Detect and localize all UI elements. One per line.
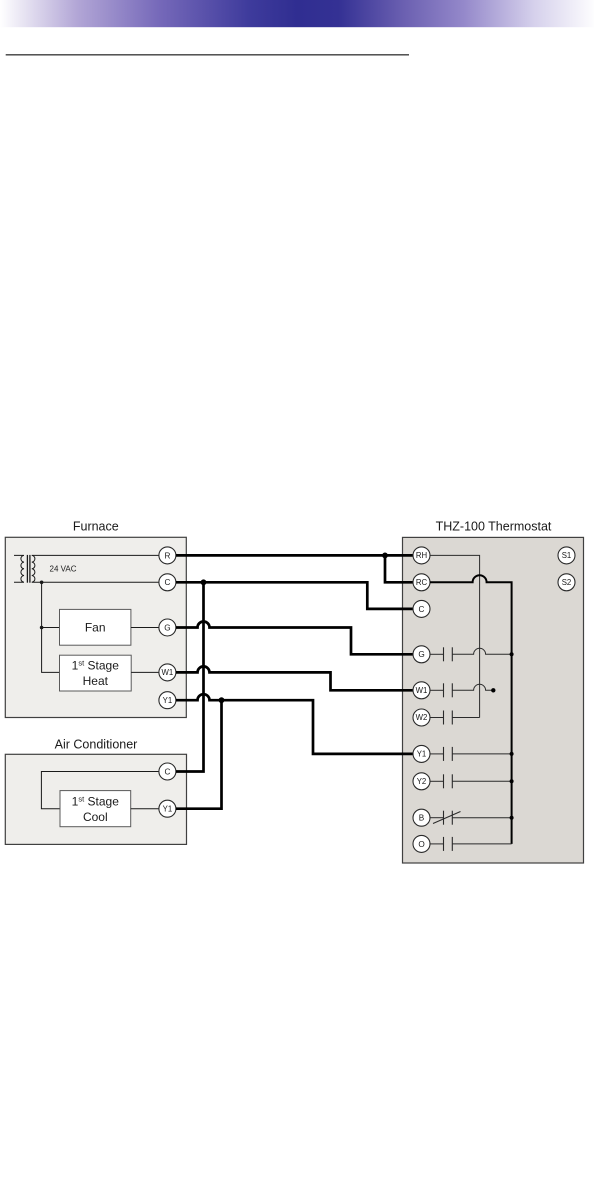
terminal Y1 (furnace) bbox=[159, 692, 176, 709]
terminal B bbox=[413, 809, 430, 826]
terminal C (furnace) bbox=[159, 574, 176, 591]
svg-text:S2: S2 bbox=[562, 578, 572, 587]
svg-text:G: G bbox=[164, 623, 170, 632]
THZ-100 Thermostat title bbox=[436, 520, 552, 534]
wire RH vertical to W2 row bbox=[430, 555, 480, 717]
contact W1 bbox=[430, 683, 493, 697]
terminal Y1 (thermostat) bbox=[413, 745, 430, 762]
junction dot B on bus bbox=[510, 816, 514, 820]
contact Y2 bbox=[430, 774, 512, 788]
svg-text:Y1: Y1 bbox=[417, 750, 427, 759]
svg-text:R: R bbox=[164, 551, 170, 560]
terminal G (thermostat) bbox=[413, 646, 430, 663]
svg-text:G: G bbox=[418, 650, 424, 659]
field wire W1 to thermostat W1 bbox=[176, 666, 413, 690]
contact B (normally closed) bbox=[430, 811, 512, 825]
svg-text:C: C bbox=[164, 767, 170, 776]
terminal O bbox=[413, 835, 430, 852]
svg-text:C: C bbox=[419, 605, 425, 614]
Fan box bbox=[60, 609, 131, 645]
field wire branch to RC bbox=[385, 555, 413, 582]
field wire Y1 to thermostat Y1 bbox=[176, 694, 413, 754]
svg-text:Heat: Heat bbox=[83, 674, 109, 688]
transformer T1 primary winding bbox=[14, 555, 24, 582]
field wire C down to AC bbox=[176, 582, 204, 771]
wire transformer secondary bottom to C bbox=[32, 581, 159, 583]
junction dot C branch bbox=[201, 579, 207, 585]
horizontal rule bbox=[6, 54, 409, 56]
Air Conditioner title bbox=[55, 738, 138, 752]
svg-text:Y1: Y1 bbox=[163, 804, 173, 813]
field wire R to RH bbox=[176, 554, 413, 557]
svg-text:24 VAC: 24 VAC bbox=[50, 564, 77, 573]
terminal W1 (furnace) bbox=[159, 664, 176, 681]
terminal G (furnace) bbox=[159, 619, 176, 636]
label 24 VAC bbox=[50, 564, 77, 573]
svg-text:Y2: Y2 bbox=[417, 777, 427, 786]
svg-text:THZ-100 Thermostat: THZ-100 Thermostat bbox=[436, 520, 552, 534]
THZ-100 Thermostat box bbox=[403, 537, 584, 863]
transformer T1 secondary winding bbox=[32, 555, 35, 582]
svg-text:O: O bbox=[418, 840, 424, 849]
wire Cool to Y1 (AC) bbox=[131, 808, 159, 810]
svg-text:W1: W1 bbox=[162, 668, 174, 677]
wire transformer secondary top to R bbox=[32, 554, 159, 556]
transformer T1 core bbox=[27, 555, 30, 583]
svg-text:W2: W2 bbox=[416, 713, 428, 722]
Air Conditioner box bbox=[5, 754, 186, 844]
terminal C (AC) bbox=[159, 763, 176, 780]
svg-text:RH: RH bbox=[416, 551, 427, 560]
svg-text:Fan: Fan bbox=[85, 621, 106, 635]
junction dot W1 stub bbox=[491, 688, 495, 692]
terminal S1 bbox=[558, 547, 575, 564]
junction dot R/RC branch bbox=[382, 553, 388, 559]
contact O bbox=[430, 837, 512, 851]
junction dot on secondary bottom bbox=[40, 581, 44, 585]
svg-text:W1: W1 bbox=[416, 686, 428, 695]
junction dot G on bus bbox=[510, 652, 514, 656]
field wire G to thermostat G bbox=[176, 622, 413, 655]
svg-text:RC: RC bbox=[416, 578, 428, 587]
terminal W2 bbox=[413, 709, 430, 726]
contact Y1 bbox=[430, 747, 512, 761]
wire common vertical inside furnace bbox=[42, 582, 60, 672]
wire RC thick with hop and vertical bus bbox=[430, 575, 512, 844]
field wire C to thermostat C bbox=[176, 582, 413, 609]
junction dot Y2 on bus bbox=[510, 779, 514, 783]
terminal R (furnace) bbox=[159, 547, 176, 564]
terminal RH bbox=[413, 547, 430, 564]
terminal RC bbox=[413, 574, 430, 591]
svg-text:B: B bbox=[419, 814, 425, 823]
contact W2 bbox=[430, 711, 480, 725]
wire Heat to W1 bbox=[131, 671, 159, 673]
banner gradient bar bbox=[0, 0, 594, 27]
Furnace box bbox=[5, 537, 186, 717]
terminal Y2 bbox=[413, 773, 430, 790]
terminal W1 (thermostat) bbox=[413, 682, 430, 699]
svg-text:Cool: Cool bbox=[83, 810, 108, 824]
terminal C (thermostat) bbox=[413, 600, 430, 617]
1st Stage Heat box bbox=[60, 655, 132, 691]
wire Fan to G bbox=[131, 627, 159, 629]
field wire AC Y1 up to Y1 line bbox=[176, 700, 222, 809]
terminal Y1 (AC) bbox=[159, 800, 176, 817]
1st Stage Cool box bbox=[60, 791, 131, 827]
svg-text:C: C bbox=[164, 578, 170, 587]
Furnace title bbox=[73, 520, 119, 534]
junction dot Y1 on bus bbox=[510, 752, 514, 756]
svg-text:S1: S1 bbox=[562, 551, 572, 560]
svg-text:Y1: Y1 bbox=[163, 696, 173, 705]
terminal S2 bbox=[558, 574, 575, 591]
junction dot Y1 branch bbox=[219, 697, 225, 703]
contact G bbox=[430, 647, 512, 661]
svg-text:Furnace: Furnace bbox=[73, 520, 119, 534]
wire branch to Fan bbox=[42, 627, 60, 629]
junction dot at fan branch bbox=[40, 626, 44, 630]
svg-text:Air Conditioner: Air Conditioner bbox=[55, 738, 138, 752]
AC internal wire C loop bbox=[41, 772, 158, 809]
